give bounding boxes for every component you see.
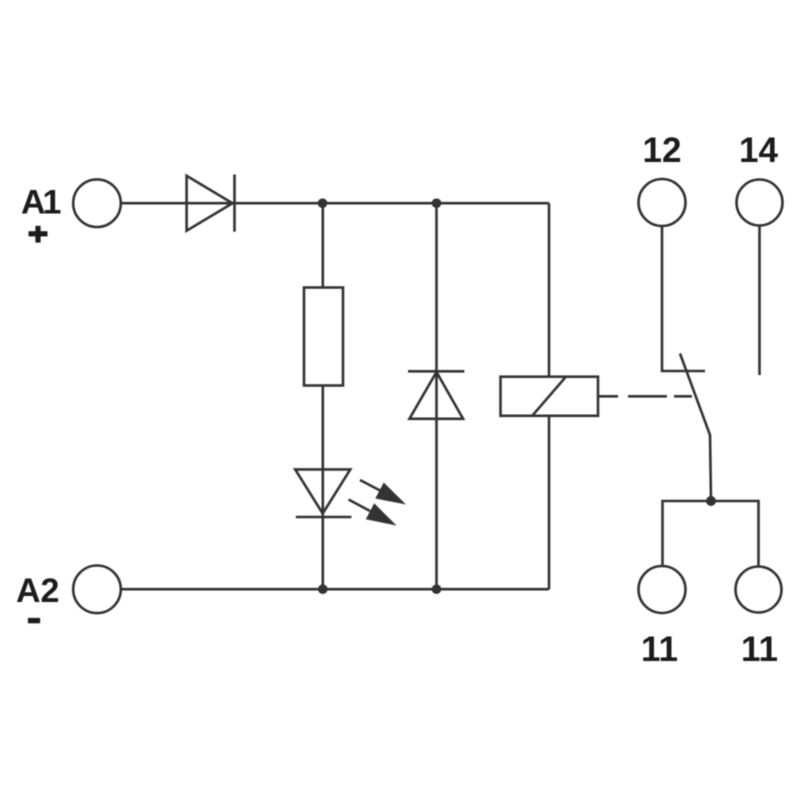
wire: A1 to coil branch (top rail) xyxy=(121,202,550,205)
wire: 14 down (NO contact, open) xyxy=(758,226,761,375)
label + xyxy=(29,226,48,243)
relay coil K1 xyxy=(501,377,599,416)
node: top rail / resistor branch xyxy=(318,198,328,208)
node: bottom rail / LED branch xyxy=(318,584,328,594)
LED emission arrow 1 xyxy=(360,480,406,505)
node: top rail / freewheel diode branch xyxy=(432,198,442,208)
svg-text:11: 11 xyxy=(641,630,678,669)
diode V2 (freewheel, cathode up) xyxy=(408,371,464,419)
svg-text:A1: A1 xyxy=(21,184,61,222)
terminal 11 (left) xyxy=(639,566,686,613)
label - xyxy=(28,618,40,623)
wire: freewheel diode branch upper xyxy=(435,203,438,419)
wire: resistor to LED xyxy=(321,386,324,518)
terminal 11 (right) xyxy=(736,567,782,613)
svg-text:A2: A2 xyxy=(16,572,59,610)
wire: A2 bottom rail xyxy=(121,588,550,591)
contact arm (changeover, shown closed to 12) xyxy=(680,354,711,502)
wire: common to both 11 terminals xyxy=(663,501,759,566)
resistor R1 xyxy=(304,288,343,386)
node: contact common junction xyxy=(706,496,716,506)
terminal 12 xyxy=(639,179,686,226)
terminal A1 xyxy=(73,179,121,227)
wire: coil branch upper xyxy=(548,203,551,377)
wire: coil to bottom rail xyxy=(548,416,551,589)
terminal A2 xyxy=(73,566,121,614)
actuation dashed link (coil to contact) xyxy=(598,395,692,398)
node: bottom rail / freewheel diode branch xyxy=(432,584,442,594)
wire: freewheel diode to bottom rail xyxy=(435,419,438,589)
svg-text:11: 11 xyxy=(741,630,778,669)
LED emission arrow 2 xyxy=(349,500,397,526)
wire: 12 down to NC stub xyxy=(662,227,705,372)
wire: LED to bottom rail xyxy=(321,517,324,589)
wire: resistor branch upper xyxy=(321,203,324,288)
svg-text:14: 14 xyxy=(739,131,778,170)
LED H1 (triangle + cathode bar) xyxy=(295,469,351,517)
diode V1 (series protection, anode left) xyxy=(187,175,235,232)
svg-text:12: 12 xyxy=(643,131,682,170)
terminal 14 xyxy=(737,180,783,226)
